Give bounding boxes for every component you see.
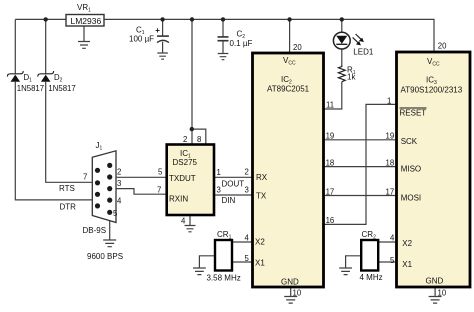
svg-text:19: 19 — [326, 132, 335, 141]
svg-text:9600 BPS: 9600 BPS — [87, 252, 123, 261]
svg-text:18: 18 — [326, 158, 335, 167]
svg-text:3: 3 — [217, 185, 221, 194]
node: C1 / rail junction — [160, 17, 164, 21]
ground (CR2) — [339, 268, 352, 275]
svg-text:4: 4 — [117, 197, 122, 206]
svg-text:1: 1 — [217, 168, 221, 177]
ground (IC3 pin 10) — [429, 297, 442, 304]
wire: MISO net — [324, 166, 397, 168]
wire: LED1 top lead — [341, 19, 343, 32]
wire: CR2 to IC3 X2 — [378, 241, 397, 243]
ground (C2) — [218, 54, 229, 60]
crystal CR1 3.58MHz — [207, 230, 241, 282]
wire: SCK net — [324, 139, 397, 141]
svg-text:TX: TX — [256, 191, 267, 200]
wire: C1 leads — [162, 19, 164, 53]
svg-text:RX: RX — [256, 173, 268, 182]
wire: CR1 to IC2 X1 — [232, 261, 253, 263]
wire: LED1 to R1 — [341, 49, 343, 65]
svg-text:17: 17 — [386, 187, 395, 196]
resistor R1 1k — [338, 65, 356, 82]
node: IC1 supply / rail junction — [190, 17, 194, 21]
wire: CR1 to IC2 X2 — [232, 241, 253, 243]
LED1 emission arrows — [353, 34, 362, 43]
J1 pin 4 — [107, 198, 112, 203]
capacitor C1 100uF — [129, 26, 169, 44]
node: IC1 pin2/pin8 junction — [190, 127, 194, 131]
connector J1 DB-9S — [83, 141, 124, 261]
svg-text:DB-9S: DB-9S — [83, 226, 107, 235]
svg-text:11: 11 — [326, 101, 334, 110]
wire: CR2 ground lead — [346, 256, 362, 268]
svg-text:7: 7 — [83, 173, 87, 182]
svg-text:X1: X1 — [402, 260, 412, 269]
wire: IC3 pin 10 to ground — [434, 287, 436, 297]
svg-text:AT90S1200/2313: AT90S1200/2313 — [401, 86, 463, 95]
J1 pin 9 — [95, 203, 100, 208]
wire: IC1 supply drop — [191, 19, 193, 144]
svg-text:5: 5 — [390, 256, 395, 265]
svg-text:+: + — [155, 26, 160, 35]
IC2 AT89C2051 — [245, 43, 335, 298]
svg-text:X2: X2 — [255, 238, 265, 247]
svg-text:3: 3 — [117, 179, 121, 188]
wire: DIN net — [214, 194, 253, 196]
svg-text:DIN: DIN — [222, 196, 236, 205]
svg-text:8: 8 — [197, 135, 201, 144]
svg-text:5: 5 — [245, 254, 250, 263]
svg-text:2: 2 — [117, 168, 121, 177]
svg-text:GND: GND — [426, 277, 444, 286]
ground symbols — [78, 42, 442, 304]
wire: +V top rail left segment — [15, 18, 66, 20]
svg-text:1: 1 — [387, 97, 391, 106]
svg-text:2: 2 — [245, 168, 249, 177]
ground (IC1 pin 4) — [185, 226, 196, 232]
wire: MOSI net — [324, 195, 397, 197]
node: IC2 Vcc / rail junction — [287, 17, 291, 21]
svg-text:MISO: MISO — [401, 164, 421, 173]
svg-text:16: 16 — [326, 216, 335, 225]
wire: R1 to IC2 pin 11 — [324, 82, 342, 109]
svg-text:5: 5 — [113, 209, 118, 218]
svg-text:20: 20 — [293, 43, 302, 52]
wire: J1 pin 2 to IC1 TXDUT — [110, 176, 167, 178]
wire: IC1 pin 4 to ground — [189, 215, 191, 226]
LED1 — [333, 32, 373, 57]
diode D1 1N5817 — [7, 71, 44, 93]
junction dots — [44, 17, 344, 131]
wire: J1 pin 3 to IC1 RXIN — [110, 189, 167, 195]
svg-text:0.1 µF: 0.1 µF — [230, 39, 253, 48]
svg-text:1N5817: 1N5817 — [48, 84, 75, 93]
svg-text:19: 19 — [386, 132, 395, 141]
wire: C2 leads — [222, 19, 224, 53]
capacitor C2 0.1uF — [218, 30, 253, 48]
J1 pin 1 — [107, 163, 112, 168]
ground (J1 shell) — [103, 240, 116, 247]
wire: CR1 ground lead — [199, 256, 215, 268]
svg-text:4 MHz: 4 MHz — [360, 273, 383, 282]
svg-text:SCK: SCK — [401, 137, 418, 146]
ground (CR1) — [193, 268, 206, 275]
node: C2 / rail junction — [221, 17, 225, 21]
svg-text:100 µF: 100 µF — [129, 35, 154, 44]
svg-text:LM2936: LM2936 — [71, 16, 102, 26]
wire: IC2 Vcc drop — [289, 19, 291, 53]
ground (IC2 pin 10) — [284, 297, 297, 304]
svg-text:DOUT: DOUT — [222, 180, 245, 189]
svg-text:1N5817: 1N5817 — [17, 84, 44, 93]
wire: DOUT net — [214, 176, 253, 178]
wire: D2 column and RTS run — [46, 19, 98, 182]
wire: VR1 ground stub — [83, 26, 85, 42]
wire: IC2 pin 16 to IC3 RESET — [324, 104, 397, 224]
J1 pin 2 — [107, 174, 112, 179]
svg-text:2: 2 — [183, 135, 187, 144]
svg-text:RXIN: RXIN — [169, 194, 188, 203]
J1 pin 3 — [107, 186, 112, 191]
wire: IC1 pin 8 branch — [192, 129, 206, 144]
ground (VR1) — [78, 42, 90, 49]
wire: CR2 to IC3 X1 — [378, 261, 397, 263]
svg-text:GND: GND — [281, 278, 299, 287]
J1 pin 6 — [95, 168, 100, 173]
wire: IC2 pin 10 to ground — [290, 287, 292, 297]
J1 pin 7 — [95, 180, 100, 185]
svg-text:DS275: DS275 — [173, 158, 198, 167]
voltage regulator VR1 — [66, 3, 104, 26]
svg-text:LED1: LED1 — [353, 48, 374, 57]
svg-text:4: 4 — [245, 234, 250, 243]
wire: D1 column and DTR run — [15, 19, 109, 200]
svg-text:TXDUT: TXDUT — [169, 174, 196, 183]
svg-text:5: 5 — [158, 167, 163, 176]
svg-text:X2: X2 — [402, 239, 412, 248]
ground (C1) — [157, 53, 168, 59]
svg-text:17: 17 — [326, 187, 335, 196]
crystal CR2 4MHz — [360, 230, 383, 282]
svg-text:AT89C2051: AT89C2051 — [267, 85, 310, 94]
node: LED1 / rail junction — [340, 17, 344, 21]
svg-text:DTR: DTR — [60, 202, 77, 211]
svg-text:7: 7 — [157, 185, 161, 194]
svg-text:4: 4 — [390, 234, 395, 243]
IC1 DS275 — [157, 135, 221, 226]
svg-text:RESET: RESET — [400, 109, 427, 118]
wire: J1 pin 5 to ground — [109, 212, 111, 240]
svg-text:RTS: RTS — [59, 184, 75, 193]
svg-text:10: 10 — [293, 289, 302, 298]
svg-text:20: 20 — [438, 42, 447, 51]
svg-text:18: 18 — [386, 158, 395, 167]
wire: +V top rail right segment to IC3 pin 20 — [104, 19, 434, 52]
IC3 AT90S1200/2313 — [386, 42, 471, 298]
svg-text:MOSI: MOSI — [401, 193, 421, 202]
svg-text:X1: X1 — [255, 259, 265, 268]
svg-text:1k: 1k — [347, 73, 356, 82]
svg-text:3.58 MHz: 3.58 MHz — [207, 273, 241, 282]
svg-text:10: 10 — [438, 289, 447, 298]
J1 pin 5 — [107, 210, 112, 215]
svg-text:3: 3 — [245, 186, 249, 195]
node: D2 / rail junction — [44, 17, 48, 21]
J1 pin 8 — [95, 192, 100, 197]
diode D2 1N5817 — [38, 71, 76, 93]
svg-text:4: 4 — [181, 217, 186, 226]
